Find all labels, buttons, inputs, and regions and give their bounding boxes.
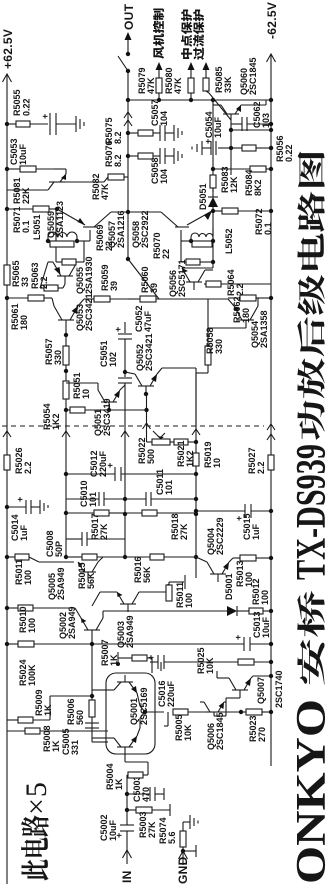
svg-text:56K: 56K <box>142 566 152 583</box>
label R5063 2.2 <box>30 262 49 289</box>
svg-text:Q5001: Q5001 <box>129 698 139 725</box>
resistor R5006 <box>89 700 95 717</box>
svg-text:OUT: OUT <box>122 3 136 30</box>
ground <box>76 116 84 132</box>
capacitor C5014 <box>5 497 48 514</box>
wire <box>128 99 271 101</box>
label C5053 10uF <box>9 138 28 165</box>
label R5011 100 <box>14 559 33 585</box>
resistor R5069 <box>56 241 84 265</box>
label R5006 560 <box>66 698 85 725</box>
resistor R5083 <box>210 175 216 188</box>
svg-text:500: 500 <box>146 449 156 464</box>
svg-text:2SA949: 2SA949 <box>67 606 77 639</box>
label R5082 47K <box>91 173 110 200</box>
chevron on bias line <box>62 431 70 437</box>
resistor R5009 <box>7 717 50 723</box>
resistor R5005 <box>173 709 206 715</box>
label C5057 104 <box>150 99 169 126</box>
svg-text:8K2: 8K2 <box>253 179 263 196</box>
svg-text:1K: 1K <box>43 704 53 716</box>
wires Q5001 out <box>92 690 106 738</box>
svg-text:2.2: 2.2 <box>23 461 33 474</box>
resistor R5010 <box>5 605 72 611</box>
svg-text:2SC2229: 2SC2229 <box>215 517 225 555</box>
svg-text:2SC3421: 2SC3421 <box>144 333 154 371</box>
svg-text:2SC1845: 2SC1845 <box>248 57 258 95</box>
svg-text:5.6: 5.6 <box>167 831 177 844</box>
resistor R5027 <box>268 455 274 470</box>
svg-text:10: 10 <box>212 458 222 468</box>
ground <box>174 148 182 164</box>
resistor R5019 <box>193 453 199 466</box>
connector chevrons on OUT line <box>124 112 132 126</box>
capacitor C5058 <box>160 148 174 164</box>
column C5010 C5011 <box>66 492 196 506</box>
svg-text:39: 39 <box>109 281 119 291</box>
transistor Q5002 <box>33 608 103 630</box>
node on +rail at R5055 <box>5 122 9 126</box>
label R5058 330 <box>205 327 224 354</box>
chevron on feedback line <box>143 423 151 429</box>
svg-text:331: 331 <box>70 740 80 755</box>
diagonal from out node <box>128 259 159 299</box>
svg-text:47K: 47K <box>146 77 156 94</box>
svg-text:+: + <box>233 635 243 640</box>
svg-text:33K: 33K <box>223 76 233 93</box>
svg-text:10K: 10K <box>183 724 193 741</box>
resistor R5061 <box>5 295 52 301</box>
transistor Q5006 <box>200 698 243 716</box>
resistor R5082 <box>65 174 128 182</box>
transistor Q5004 <box>196 557 240 582</box>
svg-text:+62.5V: +62.5V <box>1 29 15 69</box>
resistor R5058 <box>205 346 211 365</box>
column C5012 <box>66 463 196 481</box>
label Q5055 2SA1930 <box>75 256 94 294</box>
label R5019 10 <box>203 441 222 468</box>
label R5074 5.6 <box>158 817 177 844</box>
label R5057 330 <box>44 338 63 365</box>
resistor R5051 <box>63 381 69 399</box>
label R5061 180 <box>10 303 29 330</box>
node <box>269 209 273 213</box>
svg-text:0.1: 0.1 <box>263 222 273 235</box>
wire from C5005 <box>92 736 108 742</box>
label Q5057 2SA1216 <box>107 210 126 248</box>
label C5058 104 <box>150 157 169 184</box>
junction line <box>229 120 273 175</box>
transistor Q5001a (left) <box>106 712 145 753</box>
transistor Q5054 <box>228 298 258 328</box>
svg-text:10K: 10K <box>205 657 215 674</box>
transistor Q5005 <box>78 557 103 580</box>
transistor Q5051 <box>66 383 125 412</box>
svg-text:R5055: R5055 <box>12 89 22 116</box>
svg-text:1K: 1K <box>114 778 124 790</box>
svg-text:1K: 1K <box>51 740 61 752</box>
transistor Q5058 (lower output) <box>128 211 212 227</box>
label Q5058 2SC2922 <box>131 210 150 248</box>
label R5009 1K <box>34 689 53 716</box>
capacitor C5052 electrolytic <box>113 327 132 339</box>
node on -rail at R5056 <box>269 146 273 150</box>
svg-text:330: 330 <box>53 350 63 365</box>
trimmer R5022 <box>147 431 175 445</box>
resistor R5026 <box>4 455 10 470</box>
svg-text:220uF: 220uF <box>166 680 176 707</box>
connector chevron on -rail <box>267 434 275 440</box>
svg-text:+: + <box>113 327 123 332</box>
svg-text:10uF: 10uF <box>108 819 118 841</box>
resistor R5080 <box>188 62 195 100</box>
node midpoint branch <box>189 98 193 102</box>
resistor R5008 <box>7 728 108 734</box>
svg-text:2.2: 2.2 <box>256 461 266 474</box>
label R5083 12K <box>220 166 239 193</box>
label R5023 270 <box>248 715 267 742</box>
input line <box>125 775 129 850</box>
svg-text:27K: 27K <box>99 523 109 540</box>
ground up <box>192 141 202 155</box>
OUT line <box>118 32 132 261</box>
resistor R5021 <box>174 439 196 445</box>
label C5015 1uF <box>242 513 261 540</box>
resistor R5072 <box>211 208 271 214</box>
label R5076 8.2 <box>104 140 123 167</box>
resistor R5004 <box>125 753 148 778</box>
label R5015 56K <box>77 562 96 589</box>
label R5055 0.22 <box>12 89 32 116</box>
label Q5002 2SA949 <box>58 606 77 639</box>
label R5022 500 <box>137 437 156 464</box>
connector chevron on +rail <box>3 431 11 437</box>
label R5008 1K <box>42 725 61 752</box>
svg-text:L5051: L5051 <box>32 214 42 240</box>
label R5064 2.2 <box>226 269 245 296</box>
wire Q5001 to Q5006 Q5007 <box>164 712 168 726</box>
label R5084 8K2 <box>244 169 263 196</box>
label C5010 101 <box>79 480 98 507</box>
label C5051 102 <box>99 340 118 367</box>
label R5025 10K <box>196 647 215 674</box>
svg-text:D5001: D5001 <box>224 573 234 600</box>
label R5079 47K <box>137 67 156 94</box>
svg-text:+: + <box>40 114 50 119</box>
svg-text:10uF: 10uF <box>261 616 271 638</box>
transistor Q5056 <box>182 268 213 290</box>
svg-text:100K: 100K <box>27 664 37 686</box>
label Q5054 2SA1358 <box>250 310 269 348</box>
divider dashed line <box>2 425 264 427</box>
label C5012 220uF <box>89 450 108 477</box>
svg-text:270: 270 <box>257 727 267 742</box>
svg-text:ONKYO: ONKYO <box>289 699 328 884</box>
capacitor C5054 <box>202 139 231 155</box>
resistor R5023 <box>241 709 273 715</box>
transistor Q5007 <box>217 671 273 698</box>
resistor R5071 <box>5 206 59 212</box>
svg-text:8.2: 8.2 <box>113 154 123 167</box>
svg-text:470: 470 <box>141 787 151 802</box>
node fan branch <box>157 98 161 102</box>
resistor R5084 <box>211 166 273 172</box>
label C5002 10uF <box>99 814 118 841</box>
svg-text:2SA1358: 2SA1358 <box>259 310 269 348</box>
svg-text:×5: ×5 <box>20 781 53 815</box>
svg-text:0.22: 0.22 <box>284 144 294 162</box>
svg-text:104: 104 <box>159 111 169 126</box>
label Q5060 2SC1845 <box>239 57 258 95</box>
resistor R5062 <box>228 295 273 301</box>
label Q5005 2SA949 <box>47 567 66 600</box>
resistor R5054 <box>66 407 147 413</box>
transistor Q5060 <box>213 100 266 120</box>
label R5062 180 <box>232 296 251 323</box>
svg-text:0.1: 0.1 <box>21 220 31 233</box>
svg-text:101: 101 <box>88 492 98 507</box>
label C5008 50P <box>45 530 64 557</box>
GND arrow <box>179 847 188 865</box>
label R5010 100 <box>18 606 37 633</box>
label R5060 39 <box>140 266 159 293</box>
mid feedback line <box>90 630 94 736</box>
label R5012 100 <box>251 578 270 605</box>
label overcurrent protection <box>193 10 204 60</box>
capacitor C5008 <box>66 532 125 546</box>
signal line <box>123 322 127 559</box>
+62.5V rail <box>3 74 12 884</box>
svg-text:-62.5V: -62.5V <box>265 2 279 39</box>
T stub below gnd arrow <box>185 845 196 857</box>
ground <box>174 125 182 141</box>
label Q5056 2SC5171 <box>168 259 187 297</box>
capacitor C5062 <box>231 117 273 131</box>
transistor Q5057 (upper output) <box>57 209 128 227</box>
resistor R5024 <box>5 641 34 647</box>
upper bias line <box>64 328 68 559</box>
label R5021 1K2 <box>176 440 195 467</box>
label R5024 100K <box>18 659 37 686</box>
node on -rail at R5056 <box>269 146 273 150</box>
capacitor C5015 electrolytic <box>194 504 273 521</box>
capacitor C5002 electrolytic <box>114 818 134 838</box>
label C5062 103 <box>252 101 271 128</box>
resistor R5057 <box>63 346 69 365</box>
resistor R5075 <box>128 130 160 136</box>
svg-text:2SC3419: 2SC3419 <box>102 398 112 436</box>
label Q5006 2SC1845 <box>206 712 225 750</box>
label R5054 1K2 <box>42 403 61 430</box>
label R5085 33K <box>214 66 233 93</box>
node on +rail at R5081 <box>5 167 9 171</box>
svg-text:Q5007: Q5007 <box>256 677 266 704</box>
svg-text:1K2: 1K2 <box>51 413 61 430</box>
svg-text:47uF: 47uF <box>143 310 153 332</box>
label R5004 1K <box>105 763 124 790</box>
inductor L5051 with parallel resistor <box>46 230 90 247</box>
dual transistor Q5001 box <box>106 673 155 754</box>
label C5054 10uF <box>204 111 223 138</box>
ground at R5074 <box>183 815 198 829</box>
diode D5051 <box>208 188 218 207</box>
label R5011 100 <box>175 582 194 608</box>
capacitor C5005 <box>85 723 99 728</box>
capacitor C5003 <box>127 787 164 801</box>
resistor R5059 <box>84 296 128 302</box>
svg-text:IN: IN <box>120 870 134 883</box>
label Q5053 2SC3421 <box>75 293 94 331</box>
IN arrow <box>123 850 132 864</box>
label Q5001 2SC5169 <box>129 687 149 725</box>
label C5013 10uF <box>252 611 271 638</box>
label R5027 2.2 <box>247 447 266 474</box>
svg-text:10uF: 10uF <box>213 116 223 138</box>
svg-text:+: + <box>15 497 25 502</box>
label R5026 2.2 <box>14 447 33 474</box>
diode D5001 and R5012 column <box>103 606 273 616</box>
label R5071 0.1 <box>12 206 31 233</box>
svg-text:47K: 47K <box>173 77 183 94</box>
label R5007 1K <box>100 639 119 666</box>
wire R5009 down <box>50 696 92 720</box>
svg-text:100: 100 <box>184 593 194 608</box>
resistor R5003 <box>127 804 170 816</box>
svg-text:0.22: 0.22 <box>22 98 32 116</box>
svg-text:560: 560 <box>75 710 85 725</box>
label R5056 0.22 <box>275 135 294 162</box>
chevron on bias line <box>192 429 200 435</box>
label Q5052 2SC3421 <box>135 333 154 371</box>
label C5003 470 <box>132 775 151 802</box>
resistor R5063 <box>40 284 65 291</box>
svg-text:22: 22 <box>161 249 171 259</box>
label R5005 10K <box>174 714 193 741</box>
resistor R5065 <box>4 265 10 285</box>
svg-text:12K: 12K <box>229 176 239 193</box>
chevron on signal line <box>121 431 129 437</box>
resistor R5070 <box>181 241 213 265</box>
svg-text:27K: 27K <box>147 821 157 838</box>
label R5070 22 <box>152 232 171 259</box>
label C5014 1uF <box>10 514 29 541</box>
svg-text:220uF: 220uF <box>98 450 108 477</box>
transistor Q5055 <box>40 209 76 288</box>
label R5016 56K <box>133 556 152 583</box>
label midpoint protection <box>181 10 192 59</box>
svg-text:8.2: 8.2 <box>113 131 123 144</box>
label Q5003 2SA949 <box>116 615 135 648</box>
resistor R5085 <box>203 62 232 120</box>
resistor R5056 <box>231 145 271 151</box>
resistor R5079 <box>156 62 163 100</box>
resistor R5025 <box>164 659 273 665</box>
svg-text:33: 33 <box>20 277 30 287</box>
resistor R5074 <box>180 822 186 847</box>
label R5072 0.1 <box>254 208 273 235</box>
svg-text:2.2: 2.2 <box>235 283 245 296</box>
junction on OUT <box>126 210 130 214</box>
resistor R5060 <box>128 296 208 302</box>
label Q5007 2SC1740 <box>256 670 284 708</box>
svg-text:2SC2922: 2SC2922 <box>140 210 150 248</box>
label R5051 10 <box>72 372 91 399</box>
svg-text:2SA949: 2SA949 <box>56 567 66 600</box>
svg-text:180: 180 <box>19 315 29 330</box>
inductor L5052 with parallel resistor <box>181 228 215 247</box>
svg-text:330: 330 <box>214 339 224 354</box>
label R5003 27K <box>138 811 157 838</box>
svg-text:TX-DS939: TX-DS939 <box>289 444 328 580</box>
transistor Q5003 <box>92 584 168 612</box>
svg-text:1K: 1K <box>109 654 119 666</box>
resistor R5013 <box>240 555 273 561</box>
lower bias line <box>196 299 246 426</box>
overcurrent sense line <box>211 100 215 268</box>
svg-text:2SC1740: 2SC1740 <box>274 670 284 708</box>
svg-text:101: 101 <box>164 480 174 495</box>
label Q5051 2SC3419 <box>93 398 112 436</box>
capacitor C5051 <box>118 378 132 383</box>
title 安桥 <box>297 591 324 685</box>
svg-text:1uF: 1uF <box>19 524 29 541</box>
svg-text:GND: GND <box>176 856 190 884</box>
svg-text:L5052: L5052 <box>224 228 234 254</box>
svg-text:102: 102 <box>108 352 118 367</box>
label Q5004 2SC2229 <box>206 517 225 555</box>
column X331 R5011 R5015 R5016 <box>5 554 196 562</box>
label R5075 8.2 <box>104 117 123 144</box>
label R5080 47K <box>164 67 183 94</box>
column X244 tail <box>34 635 273 651</box>
capacitor C5016 electrolytic <box>146 655 164 671</box>
resistor R5007 <box>116 652 152 673</box>
svg-text:100: 100 <box>260 590 270 605</box>
svg-text:+: + <box>146 655 156 660</box>
label R5081 22K <box>12 177 31 204</box>
svg-text:+: + <box>203 139 213 144</box>
column R5017 R5018 <box>66 510 196 516</box>
svg-text:103: 103 <box>261 113 271 128</box>
-62.5V rail <box>267 54 276 766</box>
protection bus from OUT line <box>126 98 130 102</box>
resistor R5081 <box>7 166 54 172</box>
svg-text:100: 100 <box>23 570 33 585</box>
resistor R5055 <box>7 121 48 127</box>
label C5011 101 <box>155 469 174 495</box>
label C5005 331 <box>61 728 80 755</box>
label R5069 22 <box>95 224 114 251</box>
capacitor C5057 <box>160 125 174 141</box>
label R5059 39 <box>100 264 119 291</box>
svg-text:2SA1216: 2SA1216 <box>116 210 126 248</box>
svg-text:27K: 27K <box>179 523 189 540</box>
transistor Q5053 <box>52 298 84 328</box>
svg-text:2SA1930: 2SA1930 <box>84 256 94 294</box>
svg-text:1uF: 1uF <box>251 523 261 540</box>
svg-text:D5051: D5051 <box>198 183 208 210</box>
svg-text:2SC5169: 2SC5169 <box>139 687 149 725</box>
svg-text:180: 180 <box>241 308 251 323</box>
label R5013 100 <box>235 560 254 587</box>
svg-text:104: 104 <box>159 169 169 184</box>
svg-text:50P: 50P <box>54 541 64 557</box>
resistor R5076 <box>128 153 160 159</box>
svg-text:47K: 47K <box>100 183 110 200</box>
feedback line <box>144 394 148 442</box>
label fan control <box>153 9 164 59</box>
wire Q5054 emitter to R5060 <box>208 298 228 300</box>
